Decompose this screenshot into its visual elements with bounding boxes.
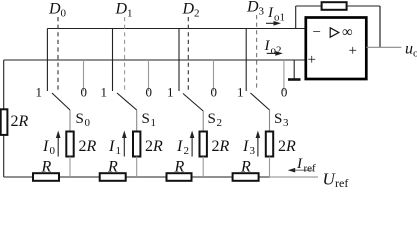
svg-text:+: + bbox=[349, 43, 357, 59]
resistor 2R leftmost termination bbox=[1, 109, 8, 135]
svg-text:3: 3 bbox=[259, 6, 265, 18]
svg-text:0: 0 bbox=[146, 85, 153, 100]
current Iref arrow bbox=[288, 168, 313, 173]
svg-text:R: R bbox=[86, 138, 97, 155]
resistor 2R of bit 0 bbox=[66, 132, 73, 157]
svg-text:0: 0 bbox=[61, 8, 67, 20]
current I2 arrow bbox=[190, 131, 195, 157]
svg-text:R: R bbox=[174, 159, 185, 176]
resistor R1 bbox=[100, 173, 126, 181]
wire D3 dashed control line bbox=[256, 15, 258, 90]
wire 2R bit0 to bottom bus bbox=[69, 157, 71, 178]
svg-text:1: 1 bbox=[116, 145, 122, 157]
node D0 label bbox=[48, 1, 67, 20]
svg-text:1: 1 bbox=[167, 85, 174, 100]
label I2 bbox=[176, 138, 189, 157]
label uo bbox=[405, 41, 417, 60]
wire feedback top right segment bbox=[347, 5, 380, 7]
wire 2R bit2 to bottom bus bbox=[202, 157, 204, 178]
current Io1 arrow bbox=[266, 21, 281, 26]
svg-text:o1: o1 bbox=[274, 12, 285, 24]
wire S0 contact-0 drop from Io2 bus bbox=[83, 60, 85, 91]
svg-text:S: S bbox=[142, 111, 150, 127]
svg-text:R: R bbox=[18, 113, 29, 130]
wire bottom bus right extension to Uref bbox=[270, 176, 319, 178]
svg-text:∞: ∞ bbox=[342, 25, 353, 41]
wire bottom bus bbox=[4, 176, 270, 178]
svg-text:2: 2 bbox=[278, 138, 286, 155]
wire 2R bit1 to bottom bus bbox=[136, 157, 138, 178]
svg-text:R: R bbox=[41, 159, 52, 176]
svg-text:0: 0 bbox=[281, 85, 288, 100]
label 2R of bit 3 bbox=[278, 138, 296, 155]
wire S3 contact-1 drop from Io1 bus bbox=[245, 29, 247, 92]
node D3 label bbox=[246, 0, 265, 18]
current Io2 arrow bbox=[267, 51, 283, 56]
label 2R of bit 1 bbox=[145, 138, 163, 155]
wire D0 dashed control line bbox=[57, 17, 59, 90]
label I0 bbox=[42, 138, 56, 157]
svg-text:2: 2 bbox=[194, 8, 200, 20]
label 2R leftmost bbox=[11, 113, 29, 130]
svg-text:D: D bbox=[115, 1, 128, 18]
svg-text:I: I bbox=[176, 138, 183, 155]
switch S3 arm bbox=[251, 93, 270, 110]
current I3 arrow bbox=[256, 131, 261, 157]
resistor 2R of bit 2 bbox=[200, 132, 207, 157]
label 2R of bit 0 bbox=[79, 138, 97, 155]
svg-text:3: 3 bbox=[250, 145, 256, 157]
svg-text:ref: ref bbox=[335, 176, 348, 187]
resistor 2R of bit 1 bbox=[133, 132, 140, 157]
svg-text:D: D bbox=[246, 0, 259, 16]
svg-text:1: 1 bbox=[36, 85, 43, 100]
svg-text:2: 2 bbox=[11, 113, 19, 130]
svg-text:R: R bbox=[152, 138, 163, 155]
svg-text:I: I bbox=[296, 156, 303, 172]
svg-text:−: − bbox=[313, 25, 321, 41]
svg-text:0: 0 bbox=[85, 117, 91, 129]
label Iref bbox=[296, 156, 316, 175]
svg-text:2: 2 bbox=[79, 138, 87, 155]
switch S1 arm bbox=[117, 93, 137, 110]
wire S3 contact-0 drop from Io2 bus bbox=[283, 60, 285, 91]
svg-text:I: I bbox=[242, 138, 249, 155]
wire S0 pole to 2R bbox=[69, 110, 71, 132]
svg-text:D: D bbox=[48, 1, 61, 18]
svg-text:R: R bbox=[285, 138, 296, 155]
wire S0 contact-1 drop from Io1 bus bbox=[46, 29, 48, 92]
svg-text:I: I bbox=[108, 138, 115, 155]
resistor R3 bbox=[233, 173, 259, 181]
svg-text:0: 0 bbox=[81, 85, 88, 100]
switch S0 arm bbox=[52, 93, 70, 110]
label I3 bbox=[242, 138, 256, 157]
svg-text:1: 1 bbox=[127, 8, 133, 20]
svg-text:S: S bbox=[274, 111, 282, 127]
wire top bus Io1 bbox=[47, 28, 305, 30]
resistor 2R of bit 3 bbox=[266, 132, 273, 157]
wire feedback riser bbox=[295, 6, 297, 29]
svg-text:+: + bbox=[308, 52, 316, 68]
label Uref bbox=[323, 170, 349, 191]
ground bbox=[288, 60, 301, 80]
wire second bus Io2 bbox=[4, 59, 306, 61]
resistor R2 bbox=[167, 173, 192, 181]
svg-text:1: 1 bbox=[237, 85, 244, 100]
svg-text:R: R bbox=[107, 159, 118, 176]
node D2 label bbox=[182, 1, 200, 20]
svg-text:o: o bbox=[413, 48, 417, 60]
svg-text:3: 3 bbox=[283, 117, 289, 129]
wire S1 contact-1 drop from Io1 bus bbox=[112, 29, 114, 92]
svg-text:I: I bbox=[267, 5, 274, 21]
op-amp gain triangle bbox=[330, 28, 339, 37]
current I1 arrow bbox=[122, 131, 127, 157]
svg-text:2: 2 bbox=[212, 138, 220, 155]
wire feedback top left segment bbox=[296, 5, 322, 7]
wire S3 pole to 2R bbox=[269, 110, 271, 132]
svg-text:0: 0 bbox=[50, 145, 56, 157]
svg-text:R: R bbox=[219, 138, 230, 155]
label 2R of bit 2 bbox=[212, 138, 230, 155]
wire D1 dashed control line bbox=[124, 17, 126, 90]
current I0 arrow bbox=[56, 131, 61, 157]
wire S1 contact-0 drop from Io2 bus bbox=[148, 60, 150, 91]
resistor feedback Rf bbox=[322, 2, 347, 10]
switch S2 arm bbox=[183, 94, 203, 112]
wire output uo bbox=[366, 46, 401, 48]
resistor R0 bbox=[33, 173, 59, 181]
wire S2 contact-0 drop from Io2 bus bbox=[213, 60, 215, 91]
label Io2 bbox=[264, 38, 282, 57]
label S0 bbox=[76, 111, 91, 129]
svg-text:I: I bbox=[264, 38, 271, 54]
svg-text:u: u bbox=[405, 41, 413, 58]
svg-text:2: 2 bbox=[145, 138, 153, 155]
wire S2 contact-1 drop from Io1 bus bbox=[178, 29, 180, 92]
wire D2 dashed control line bbox=[187, 17, 189, 90]
svg-text:1: 1 bbox=[101, 85, 108, 100]
svg-text:1: 1 bbox=[151, 117, 157, 129]
svg-text:2: 2 bbox=[217, 117, 223, 129]
wire S1 pole to 2R bbox=[136, 110, 138, 132]
label S3 bbox=[274, 111, 289, 129]
wire left edge vertical bbox=[3, 60, 5, 177]
svg-text:ref: ref bbox=[304, 163, 317, 175]
label S1 bbox=[142, 111, 157, 129]
svg-text:0: 0 bbox=[211, 85, 218, 100]
label S2 bbox=[208, 111, 223, 129]
svg-text:S: S bbox=[76, 111, 84, 127]
label I1 bbox=[108, 138, 121, 157]
node D1 label bbox=[115, 1, 133, 20]
svg-text:2: 2 bbox=[184, 145, 190, 157]
svg-text:R: R bbox=[240, 159, 251, 176]
svg-text:D: D bbox=[182, 1, 195, 18]
wire S2 pole to 2R bbox=[202, 111, 204, 132]
svg-text:S: S bbox=[208, 111, 216, 127]
wire feedback drop to output bbox=[379, 6, 381, 47]
svg-text:I: I bbox=[42, 138, 49, 155]
wire 2R bit3 to bottom bus bbox=[269, 157, 271, 178]
label Io1 bbox=[267, 5, 285, 24]
op-amp U1 body bbox=[306, 18, 367, 80]
svg-text:o2: o2 bbox=[271, 45, 282, 57]
